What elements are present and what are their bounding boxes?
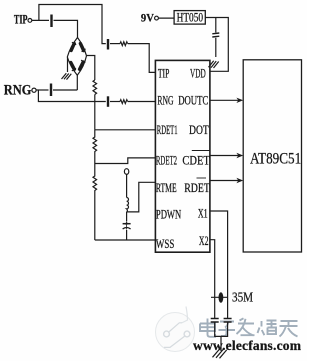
overline CDET [192, 150, 210, 152]
diode D4 [80, 62, 84, 69]
svg-text:RDET: RDET [184, 182, 210, 195]
wire RDET2 jog [95, 158, 156, 164]
resistor R5 [93, 164, 97, 241]
svg-text:PDWN: PDWN [156, 208, 182, 222]
wire C4 to R3 [110, 101, 120, 103]
wire CDET arrow [210, 155, 240, 157]
ground at C6 [209, 61, 219, 68]
svg-text:TIP: TIP [14, 14, 28, 27]
wire RDET arrow [210, 180, 240, 182]
wire X1 [210, 211, 228, 318]
wire R1 to TIP pin [128, 44, 156, 73]
svg-text:www.elecfans.com: www.elecfans.com [193, 338, 302, 353]
overline RDET [197, 177, 207, 179]
capacitor C1 [50, 15, 52, 28]
wire RTME jog [127, 182, 156, 212]
svg-text:TIP: TIP [158, 68, 170, 81]
svg-text:CDET: CDET [182, 155, 209, 168]
svg-text:RDET1: RDET1 [157, 124, 178, 138]
diode D1 [71, 44, 74, 51]
svg-text:RDET2: RDET2 [156, 154, 177, 168]
svg-text:RNG: RNG [4, 82, 32, 98]
wire caps to ground [215, 322, 228, 351]
svg-text:DOT: DOT [189, 124, 209, 137]
capacitor C3 [50, 84, 52, 97]
capacitor C8 [224, 319, 232, 323]
wire RNG lower branch [38, 90, 105, 102]
capacitor C6 [212, 18, 219, 58]
svg-text:X2: X2 [199, 235, 209, 248]
svg-text:RNG: RNG [157, 95, 173, 108]
wire bridge right to vertical bus [87, 56, 95, 81]
svg-text:RTME: RTME [156, 182, 177, 195]
resistor R2 [93, 80, 97, 95]
svg-text:9V: 9V [141, 12, 154, 25]
capacitor C7 [211, 319, 219, 323]
ground at crystal [213, 349, 227, 358]
capacitor C2 [107, 39, 109, 50]
svg-text:VDD: VDD [190, 68, 206, 81]
svg-text:HT050: HT050 [177, 11, 204, 25]
node test point circle [124, 169, 128, 175]
svg-text:35M: 35M [232, 289, 253, 304]
wire U2 out to VDD [205, 18, 228, 72]
diode D2 [80, 44, 83, 51]
wire bus to RDET1 junction [94, 95, 96, 130]
ground at bridge left [62, 58, 72, 80]
resistor R4 [93, 130, 97, 164]
wire DOUTC arrow [210, 99, 240, 101]
wire R3 to RNG pin [128, 101, 156, 103]
wire C2 to R1 [110, 43, 120, 45]
svg-text:WSS: WSS [156, 237, 174, 251]
inductor L1 [127, 174, 129, 221]
wire 9V to U2 [158, 17, 174, 19]
wire X2 [210, 240, 215, 319]
svg-text:DOUTC: DOUTC [178, 94, 208, 108]
wire WSS [95, 239, 156, 241]
resistor R1 [120, 42, 128, 46]
svg-text:X1: X1 [198, 208, 208, 221]
svg-text:AT89C51: AT89C51 [250, 150, 301, 167]
wire top bypass [39, 5, 106, 44]
regulator U2 HT050 box [174, 11, 205, 25]
resistor R3 [120, 100, 128, 104]
wire RDET1 [95, 129, 156, 131]
wire TIP to C1 [32, 19, 49, 21]
capacitor C4 [107, 96, 109, 107]
wire C3 to bridge bottom [53, 75, 77, 90]
wire C1 to bridge top [54, 20, 78, 37]
diode bridge D1-D4 [67, 38, 86, 76]
watermark logo [156, 307, 195, 352]
diode D3 [71, 63, 75, 70]
IC U1 box [155, 60, 210, 252]
IC U3 AT89C51 box [243, 60, 301, 252]
watermark text dianzifashaoyou [200, 318, 298, 337]
wire RNG to C3 [36, 89, 48, 91]
crystal Y1 [211, 296, 228, 298]
capacitor C5 polarized [123, 222, 131, 240]
